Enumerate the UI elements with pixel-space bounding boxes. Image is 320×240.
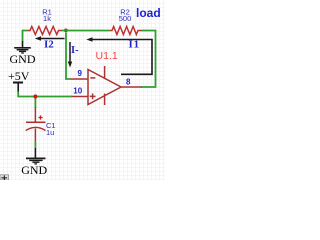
capacitor C1 [26, 107, 46, 142]
svg-text:GND: GND [21, 163, 47, 177]
svg-text:I-: I- [71, 45, 79, 56]
current probe loop I1 [86, 37, 152, 74]
origin corner marker [0, 175, 9, 180]
+5V power symbol [13, 83, 23, 92]
current arrow I2 [35, 36, 65, 41]
svg-text:500: 500 [119, 14, 132, 23]
wire R2 right down to output [141, 31, 156, 88]
svg-text:10: 10 [73, 87, 82, 96]
wire C1 to GND2 [34, 142, 36, 149]
node dot at +5V / C1 junction [33, 94, 37, 98]
C1 polarity + [38, 115, 42, 119]
wire down to C1 [34, 99, 36, 108]
resistor R1 zigzag [28, 27, 62, 35]
svg-text:8: 8 [126, 77, 131, 86]
ground GND2 symbol [26, 148, 46, 164]
svg-text:1u: 1u [46, 128, 54, 137]
svg-text:GND: GND [10, 52, 36, 66]
wire junction down to pin 9 [66, 33, 71, 80]
svg-text:9: 9 [78, 69, 83, 78]
svg-text:+5V: +5V [8, 69, 30, 83]
svg-text:I2: I2 [44, 39, 54, 51]
wire GND1 to R1 [23, 31, 28, 42]
svg-text:1k: 1k [43, 14, 51, 23]
wire top rail to R2 [61, 30, 109, 32]
ground GND1 symbol [14, 41, 31, 53]
op-amp U1.1 [71, 66, 143, 105]
wire +5V to pin 10 [18, 92, 72, 97]
svg-text:load: load [136, 6, 161, 20]
svg-text:U1.1: U1.1 [96, 50, 118, 62]
svg-text:I1: I1 [129, 38, 140, 50]
node dot at R1/R2/opamp junction [64, 29, 68, 33]
resistor R2 zigzag [109, 27, 142, 35]
current arrow I- [68, 42, 72, 68]
